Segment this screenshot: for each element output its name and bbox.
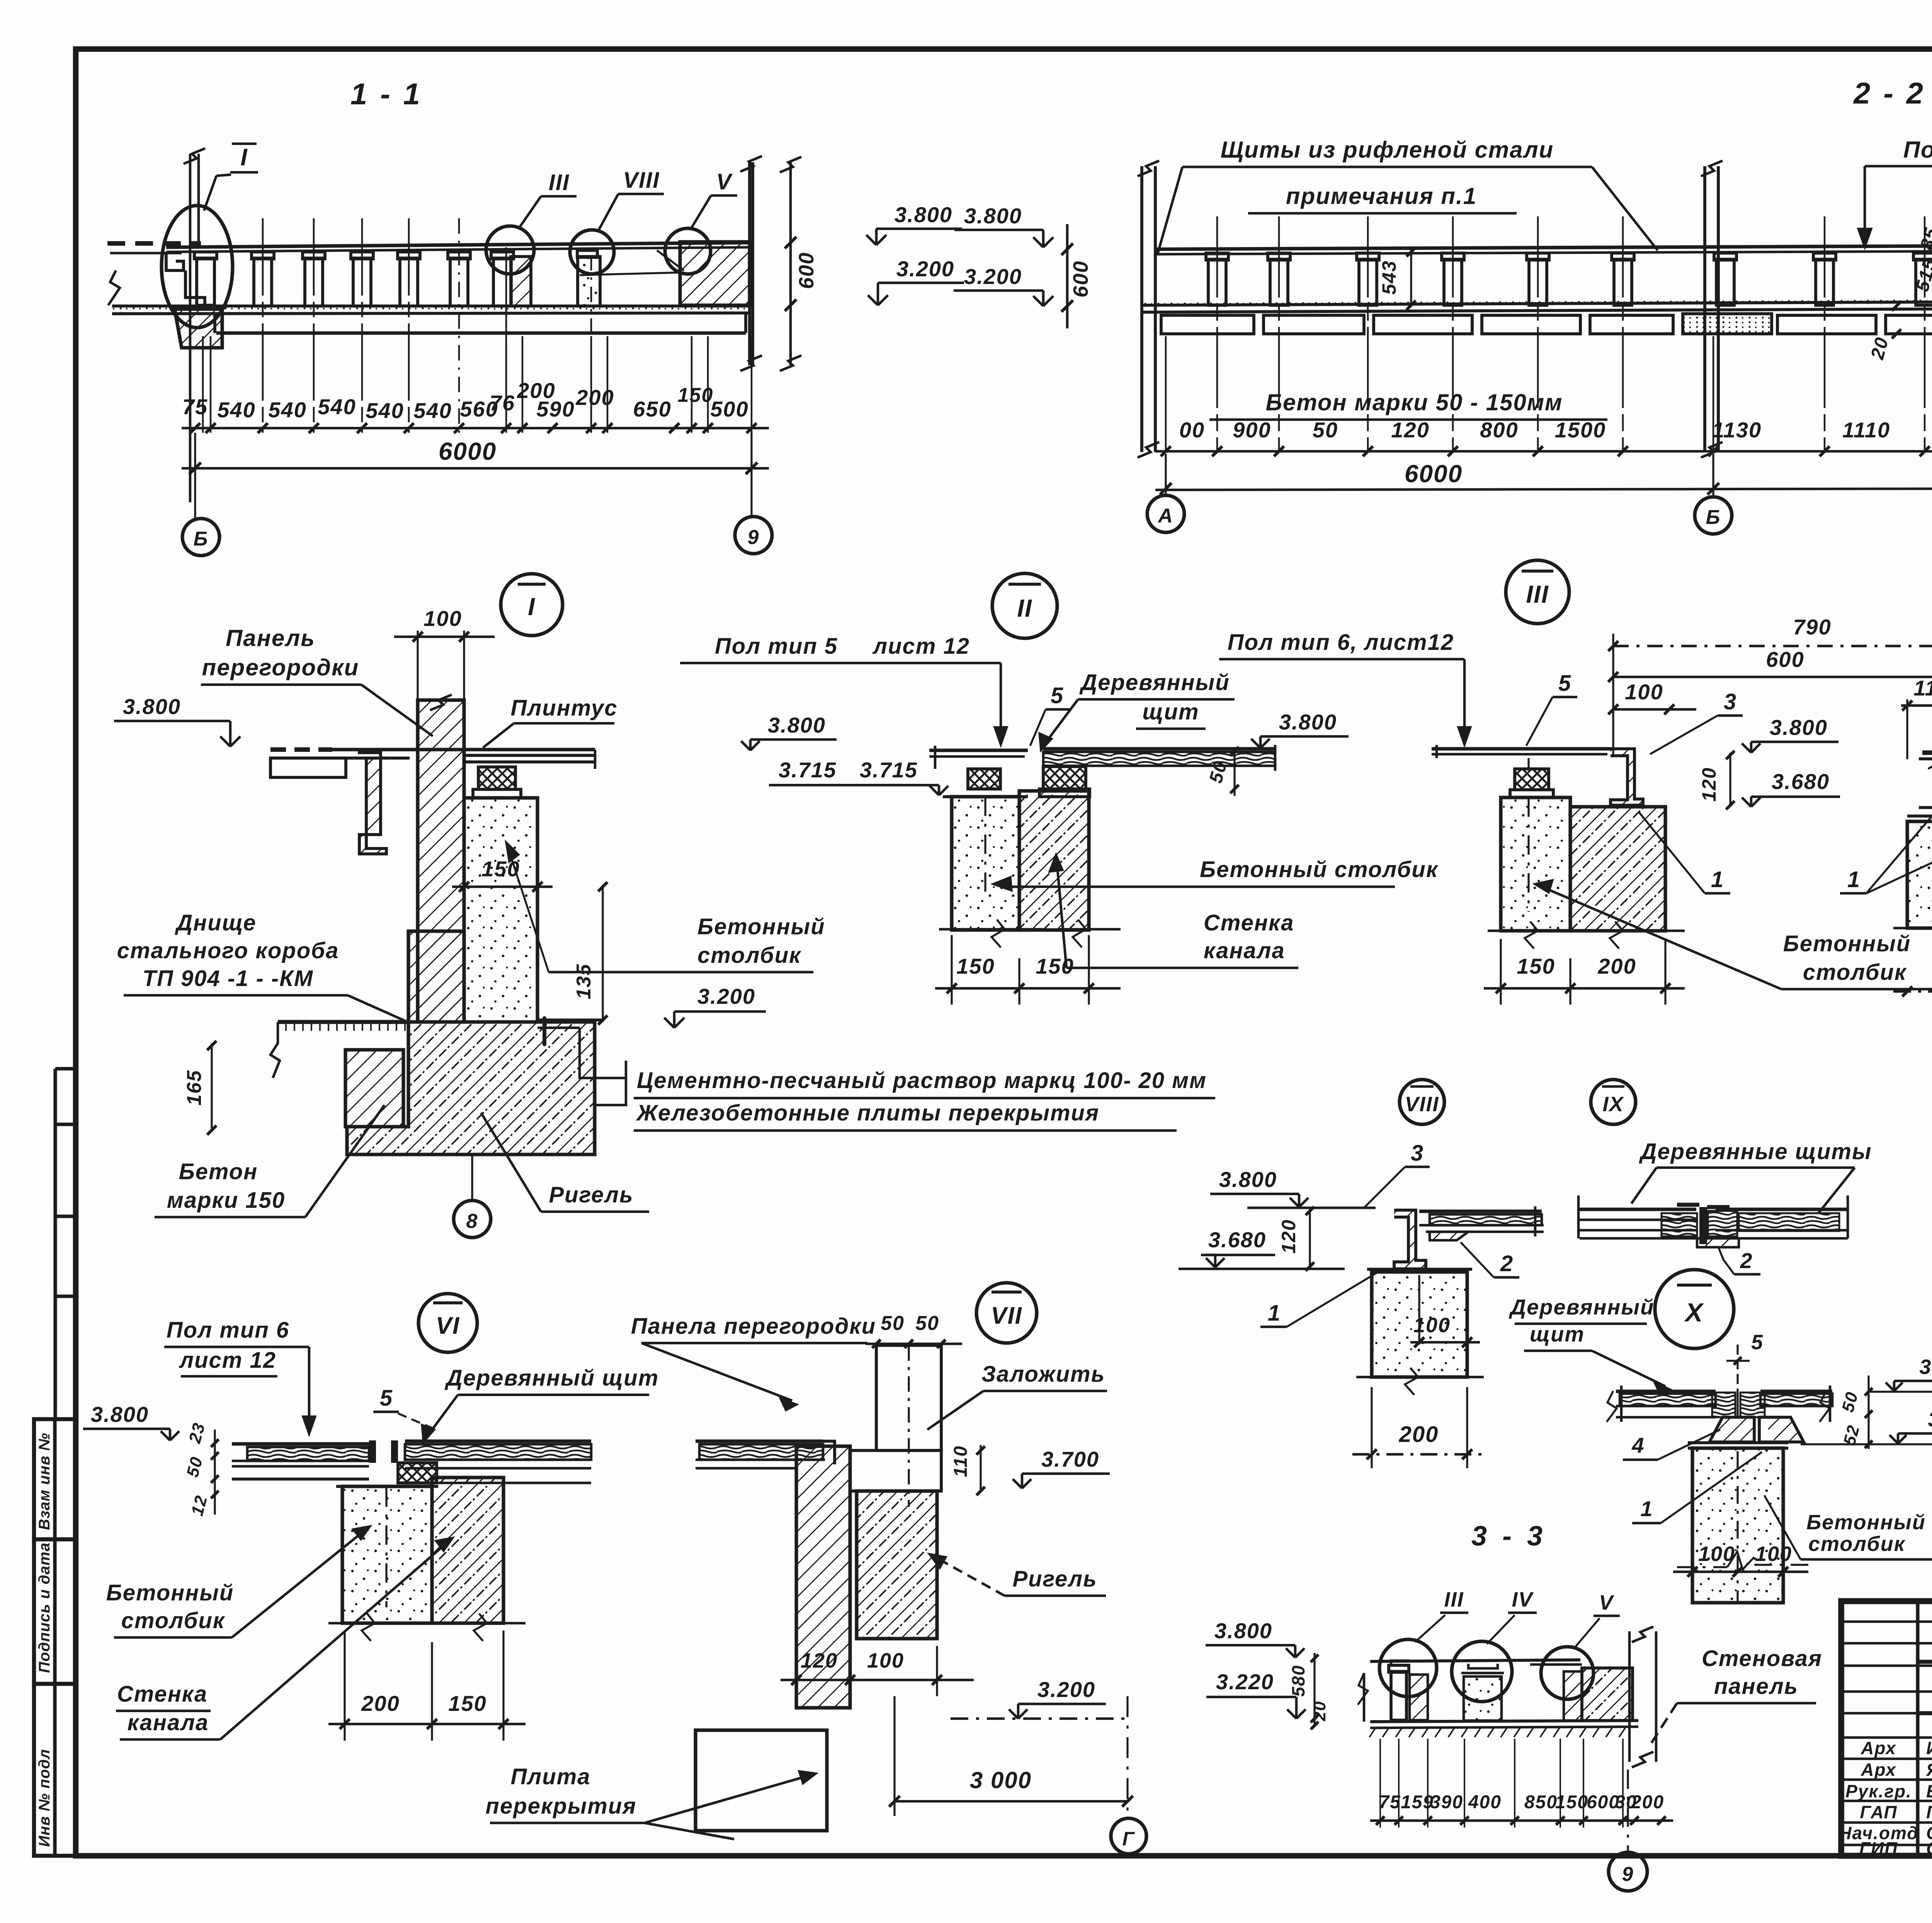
- svg-text:3.200: 3.200: [896, 257, 954, 281]
- svg-text:X: X: [1684, 1298, 1704, 1327]
- svg-text:Деревянные щиты: Деревянные щиты: [1639, 1139, 1872, 1164]
- svg-text:540: 540: [217, 398, 255, 422]
- svg-text:Стенка: Стенка: [117, 1682, 207, 1707]
- section 2-2 wall at axis B: [1703, 166, 1706, 452]
- svg-text:Пол тип 6: Пол тип 6: [1903, 137, 1932, 163]
- svg-text:100: 100: [1625, 680, 1663, 704]
- svg-text:4: 4: [1631, 1433, 1645, 1457]
- svg-text:Взам инв №: Взам инв №: [36, 1433, 53, 1530]
- svg-text:3.800: 3.800: [1279, 710, 1337, 734]
- svg-text:лист 12: лист 12: [872, 634, 970, 659]
- svg-text:5: 5: [380, 1386, 393, 1411]
- svg-text:100: 100: [867, 1649, 904, 1672]
- svg-text:400: 400: [1468, 1792, 1502, 1812]
- detail III channel wall: [1570, 807, 1665, 931]
- svg-text:200: 200: [517, 378, 555, 403]
- svg-text:III: III: [549, 170, 570, 195]
- left stamp upper boxes: [53, 1069, 57, 1419]
- 3-3 wall hatches: [1564, 1671, 1582, 1721]
- svg-text:Заложить: Заложить: [981, 1362, 1105, 1387]
- svg-text:III: III: [1526, 580, 1549, 608]
- svg-text:500: 500: [710, 397, 748, 421]
- svg-text:1: 1: [1711, 867, 1724, 892]
- detail X break: [1677, 1566, 1727, 1568]
- svg-text:ТП 904 -1 - -КМ: ТП 904 -1 - -КМ: [143, 966, 314, 991]
- svg-text:столбик: столбик: [1808, 1532, 1906, 1556]
- svg-text:ГИП: ГИП: [1859, 1838, 1898, 1858]
- svg-text:Бетон: Бетон: [179, 1159, 258, 1184]
- svg-text:540: 540: [413, 398, 452, 423]
- svg-text:50: 50: [881, 1312, 905, 1335]
- svg-text:V: V: [1599, 1591, 1614, 1614]
- detail I callout circle: [501, 574, 563, 636]
- detail I concrete column: [464, 798, 537, 1022]
- svg-text:канала: канала: [1204, 938, 1285, 963]
- detail IX wood shields: [1577, 1195, 1580, 1238]
- section 1-1 posts: [197, 258, 214, 305]
- svg-text:3: 3: [1411, 1141, 1424, 1166]
- svg-text:IV: IV: [1512, 1588, 1534, 1611]
- svg-text:стального короба: стального короба: [117, 938, 339, 963]
- detail III crosshatch pad: [1515, 769, 1549, 790]
- detail VII zalozhit column: [876, 1345, 941, 1450]
- svg-text:Плита: Плита: [510, 1764, 590, 1789]
- svg-text:3.200: 3.200: [964, 264, 1022, 289]
- detail VI floor wood strips: [232, 1442, 369, 1445]
- svg-text:200: 200: [361, 1691, 400, 1716]
- svg-text:150: 150: [956, 954, 995, 978]
- svg-text:1: 1: [1847, 867, 1861, 892]
- 3-3 callout circles: [1379, 1639, 1437, 1697]
- title block rows right part: [1918, 1660, 1932, 1664]
- svg-text:А: А: [1157, 505, 1173, 527]
- detail callout ellipse I: [162, 206, 233, 328]
- svg-text:135: 135: [573, 964, 595, 1000]
- svg-text:6000: 6000: [1405, 460, 1463, 488]
- section 1-1 slab top line: [166, 243, 750, 247]
- svg-text:120: 120: [1278, 1219, 1299, 1253]
- detail X concrete column: [1692, 1448, 1783, 1603]
- svg-text:Языджан: Языджан: [1926, 1760, 1932, 1780]
- stippled refill panel under axis B: [1683, 314, 1772, 334]
- detail VII wall panel hatch: [796, 1446, 850, 1708]
- svg-text:щит: щит: [1142, 699, 1199, 724]
- svg-text:1130: 1130: [1712, 418, 1762, 442]
- svg-text:Панель: Панель: [226, 625, 315, 651]
- svg-text:120: 120: [1698, 767, 1720, 801]
- section 1-1 dim line: [182, 427, 769, 430]
- svg-text:Арх: Арх: [1861, 1760, 1896, 1780]
- svg-text:перегородки: перегородки: [202, 655, 359, 680]
- detail VI channel wall: [432, 1478, 503, 1623]
- detail VIII break: [1356, 1376, 1484, 1379]
- mortar line right: [537, 1018, 603, 1022]
- svg-text:VI: VI: [436, 1313, 460, 1339]
- detail IX callout circle: [1591, 1080, 1636, 1124]
- svg-text:3.200: 3.200: [1037, 1677, 1095, 1702]
- svg-text:3.680: 3.680: [1208, 1228, 1266, 1252]
- svg-text:I: I: [240, 144, 248, 171]
- detail II break marks: [939, 928, 1043, 931]
- section 2-2 extension lines: [1165, 336, 1167, 450]
- svg-text:1500: 1500: [1555, 418, 1606, 442]
- 3-3 bottom band: [1370, 1721, 1638, 1722]
- svg-text:3.715: 3.715: [860, 758, 918, 782]
- svg-text:5: 5: [1751, 1331, 1764, 1354]
- svg-text:3.800: 3.800: [1770, 715, 1828, 740]
- svg-text:Бескоровайный: Бескоровайный: [1926, 1781, 1932, 1801]
- svg-text:1: 1: [1640, 1496, 1653, 1521]
- svg-text:канала: канала: [128, 1710, 209, 1735]
- svg-text:Бетонный: Бетонный: [1783, 931, 1911, 956]
- svg-text:580: 580: [1288, 1665, 1308, 1697]
- svg-text:Осташевский: Осташевский: [1926, 1838, 1932, 1858]
- svg-text:марки 150: марки 150: [167, 1188, 285, 1213]
- svg-text:100: 100: [1755, 1542, 1792, 1566]
- svg-text:110: 110: [951, 1445, 971, 1478]
- right end hatched block: [680, 242, 750, 305]
- svg-text:100: 100: [423, 606, 462, 631]
- svg-text:850: 850: [1524, 1792, 1558, 1812]
- detail VIII callout circle: [1400, 1080, 1444, 1124]
- detail I steel box under floor: [270, 758, 346, 777]
- svg-text:790: 790: [1793, 615, 1831, 639]
- svg-text:Бетон марки 50 - 150мм: Бетон марки 50 - 150мм: [1265, 389, 1563, 415]
- svg-text:3: 3: [1724, 689, 1737, 714]
- svg-text:VIII: VIII: [623, 168, 660, 193]
- svg-text:200: 200: [1631, 1792, 1664, 1812]
- svg-text:3.800: 3.800: [768, 713, 826, 737]
- svg-text:столбик: столбик: [697, 943, 801, 968]
- svg-text:150: 150: [448, 1691, 486, 1716]
- svg-text:Плинтус: Плинтус: [511, 695, 618, 721]
- grid bubble A: [1165, 454, 1167, 494]
- svg-text:I: I: [528, 593, 536, 621]
- svg-text:Деревянный щит: Деревянный щит: [444, 1365, 659, 1391]
- detail II callout circle: [992, 573, 1057, 638]
- svg-text:столбик: столбик: [1803, 960, 1907, 985]
- svg-text:5: 5: [1558, 671, 1571, 696]
- section 1-1 right wall lines: [748, 162, 751, 365]
- title block verticals: [1916, 1601, 1919, 1856]
- detail VII rigel hatch: [857, 1491, 937, 1639]
- detail X trapezoid support: [1709, 1417, 1754, 1442]
- svg-text:3.800: 3.800: [964, 204, 1022, 228]
- detail VII white step: [850, 1450, 941, 1491]
- section 1-1 extension lines: [202, 336, 204, 433]
- svg-text:Бетонный: Бетонный: [106, 1580, 234, 1605]
- 3-3 right wall/dim: [1628, 1631, 1631, 1762]
- svg-text:3 000: 3 000: [970, 1767, 1032, 1793]
- svg-text:76: 76: [490, 391, 515, 415]
- under floor slab lines: [232, 1465, 369, 1468]
- svg-text:110: 110: [1913, 676, 1932, 700]
- detail III floor sheet: [1432, 747, 1611, 750]
- svg-text:390: 390: [1430, 1792, 1463, 1812]
- svg-text:Днище: Днище: [174, 910, 256, 935]
- svg-text:Петровский: Петровский: [1926, 1802, 1932, 1822]
- svg-text:VII: VII: [991, 1302, 1022, 1329]
- 3-3 floor top line: [1370, 1660, 1580, 1661]
- detail X wood floor: [1616, 1389, 1716, 1393]
- detail I floor line: [270, 747, 332, 752]
- svg-text:3.220: 3.220: [1216, 1670, 1274, 1694]
- svg-text:панель: панель: [1714, 1674, 1798, 1699]
- svg-text:3.800: 3.800: [1919, 1355, 1932, 1379]
- svg-text:6000: 6000: [439, 437, 497, 465]
- svg-text:50: 50: [1313, 418, 1338, 442]
- svg-text:3.800: 3.800: [1214, 1619, 1272, 1643]
- svg-text:200: 200: [1399, 1422, 1439, 1447]
- svg-text:165: 165: [183, 1070, 206, 1106]
- detail VIII Z profile: [1394, 1210, 1426, 1269]
- svg-text:50: 50: [915, 1312, 939, 1335]
- svg-text:1110: 1110: [1842, 418, 1890, 442]
- svg-text:3.698: 3.698: [1928, 1408, 1932, 1431]
- grid bubble 9 (3-3): [1627, 1770, 1629, 1851]
- svg-text:150: 150: [678, 384, 714, 406]
- detail III concrete column: [1501, 797, 1570, 931]
- svg-text:Железобетонные плиты перекры: Железобетонные плиты перекрытия: [636, 1100, 1099, 1126]
- svg-text:159: 159: [1401, 1792, 1434, 1812]
- grid bubble B2: [1712, 454, 1714, 495]
- section 2-2 posts: [1208, 259, 1226, 305]
- svg-text:2: 2: [1500, 1251, 1514, 1276]
- svg-text:Арх: Арх: [1861, 1738, 1896, 1758]
- detail I partition wall hatched: [418, 700, 464, 1022]
- detail I small hatch step left: [345, 1050, 403, 1127]
- svg-text:Б: Б: [194, 528, 209, 550]
- svg-text:150: 150: [1517, 954, 1555, 978]
- joint pieces: [369, 1440, 376, 1463]
- scan edge top-left corner: [73, 49, 78, 1856]
- svg-text:щит: щит: [1530, 1322, 1585, 1346]
- section 1-1 slab bottom band: [112, 304, 750, 308]
- detail VII callout circle: [976, 1283, 1037, 1343]
- section 2-2 slab top: [1155, 243, 1932, 249]
- svg-text:V: V: [716, 169, 733, 194]
- svg-text:Ригель: Ригель: [549, 1182, 633, 1207]
- svg-text:Г: Г: [1122, 1828, 1135, 1850]
- detail IV steel frame: [1922, 750, 1932, 755]
- svg-text:3.800: 3.800: [1219, 1167, 1277, 1192]
- detail IV concrete base: [1907, 821, 1932, 928]
- title block outer: [1841, 1601, 1932, 1856]
- svg-text:IX: IX: [1602, 1093, 1624, 1116]
- detail II concrete column: [952, 797, 1019, 930]
- svg-text:800: 800: [1480, 418, 1518, 442]
- svg-text:Стеновая: Стеновая: [1702, 1646, 1822, 1671]
- svg-text:VIII: VIII: [1405, 1093, 1439, 1116]
- detail VI concrete column: [342, 1486, 432, 1623]
- detail X callout circle: [1655, 1270, 1734, 1348]
- svg-text:3.715: 3.715: [779, 758, 837, 782]
- detail I steel floor bottom: [278, 1020, 408, 1024]
- detail VII floor left: [696, 1439, 823, 1443]
- svg-text:Бетонный: Бетонный: [697, 914, 825, 939]
- svg-text:120: 120: [1391, 418, 1429, 442]
- stippled block at detail VIII: [578, 257, 600, 306]
- svg-text:Пол тип 6: Пол тип 6: [167, 1318, 289, 1343]
- section 1-1 dashed floor line left: [107, 241, 201, 246]
- svg-text:100: 100: [1698, 1542, 1735, 1566]
- detail IX joint: [1699, 1207, 1707, 1244]
- svg-text:3.200: 3.200: [697, 984, 755, 1008]
- svg-text:3.800: 3.800: [123, 694, 181, 719]
- svg-text:Бетонный: Бетонный: [1806, 1511, 1926, 1534]
- svg-text:5: 5: [1051, 683, 1064, 708]
- section 2-2 slab bottom dotted: [1142, 299, 1932, 305]
- svg-text:Рук.гр.: Рук.гр.: [1845, 1781, 1912, 1801]
- svg-text:Ищенко: Ищенко: [1926, 1738, 1932, 1758]
- svg-text:8: 8: [466, 1210, 478, 1233]
- title block left small rows: [1841, 1620, 1932, 1623]
- detail II channel wall hatched: [1019, 791, 1089, 930]
- section 2-2 dim line 1: [1155, 450, 1932, 453]
- hatched wedge VIII: [1430, 1232, 1468, 1240]
- svg-text:Пол тип 6, лист12: Пол тип 6, лист12: [1228, 630, 1454, 655]
- svg-text:столбик: столбик: [121, 1608, 225, 1633]
- svg-text:примечания п.1: примечания п.1: [1286, 183, 1477, 209]
- detail II floor sheets: [929, 748, 1028, 752]
- grid bubble 8: [471, 1155, 473, 1200]
- svg-text:3.680: 3.680: [1772, 769, 1830, 794]
- detail VII slab plate bottom: [696, 1730, 827, 1831]
- svg-text:00: 00: [1179, 418, 1205, 442]
- detail I C-channel profile: [359, 750, 386, 854]
- detail IV break: [1893, 927, 1932, 930]
- svg-text:Щиты из рифленой стали: Щиты из рифленой стали: [1221, 137, 1554, 163]
- section 2-2 dim 600 vertical: [1066, 224, 1069, 328]
- detail X joint wood blocks: [1712, 1393, 1735, 1417]
- detail I lower hatched wall block: [408, 931, 464, 1022]
- svg-text:Пол тип 5: Пол тип 5: [715, 634, 838, 659]
- svg-text:150: 150: [1036, 954, 1074, 978]
- svg-text:2: 2: [1740, 1248, 1753, 1273]
- svg-text:Деревянный: Деревянный: [1079, 670, 1230, 695]
- svg-text:3 - 3: 3 - 3: [1471, 1521, 1546, 1552]
- detail III Z profile: [1611, 749, 1643, 805]
- svg-text:1: 1: [1268, 1301, 1281, 1326]
- svg-text:600: 600: [1069, 260, 1092, 298]
- grid line G: [1126, 1696, 1128, 1816]
- svg-text:перекрытия: перекрытия: [486, 1794, 637, 1819]
- svg-text:II: II: [1017, 594, 1032, 622]
- svg-text:III: III: [1444, 1588, 1464, 1611]
- svg-text:650: 650: [633, 397, 671, 421]
- svg-text:2 - 2: 2 - 2: [1853, 76, 1925, 110]
- svg-text:200: 200: [1597, 954, 1636, 978]
- detail I plinth crosshatch: [478, 767, 515, 789]
- 3-3 posts: [1391, 1671, 1406, 1720]
- detail callout circle VIII: [570, 230, 614, 274]
- svg-text:75: 75: [1379, 1792, 1401, 1812]
- svg-text:9: 9: [748, 526, 760, 549]
- detail VIII wood floor right: [1419, 1209, 1542, 1213]
- section 1-1 left hatched footing: [175, 309, 222, 348]
- post at detail III with hatch block: [493, 258, 511, 306]
- svg-text:120: 120: [801, 1649, 838, 1672]
- svg-text:3.700: 3.700: [1041, 1447, 1099, 1471]
- section 1-1 bottom beam: [216, 331, 746, 335]
- detail VI callout circle: [418, 1294, 477, 1352]
- svg-text:3.800: 3.800: [91, 1402, 149, 1427]
- detail VIII concrete column: [1372, 1272, 1467, 1377]
- left stamp: Vzam inv block: [34, 1419, 76, 1539]
- section 2-2 panel row: [1161, 315, 1254, 334]
- detail III callout circle: [1506, 560, 1569, 624]
- detail I rigel hatched: [347, 1022, 595, 1154]
- svg-text:600: 600: [1766, 647, 1804, 672]
- svg-text:Ригель: Ригель: [1012, 1566, 1097, 1591]
- svg-text:1 - 1: 1 - 1: [350, 77, 422, 111]
- section 2-2 wall at axis A: [1140, 166, 1143, 452]
- section 1-1 channel detail: [166, 252, 184, 270]
- svg-text:Б: Б: [1706, 506, 1721, 529]
- svg-text:Деревянный: Деревянный: [1509, 1295, 1655, 1319]
- svg-text:Цементно-песчаный раствор ма: Цементно-песчаный раствор маркц 100- 20 …: [637, 1068, 1207, 1093]
- svg-text:900: 900: [1233, 418, 1271, 442]
- svg-text:Бетонный столбик: Бетонный столбик: [1200, 857, 1439, 882]
- svg-text:лист 12: лист 12: [179, 1348, 276, 1373]
- grid bubble 9: [735, 517, 772, 554]
- detail VI breaks: [328, 1622, 425, 1625]
- detail II crosshatch pads: [968, 769, 1000, 789]
- svg-text:3.800: 3.800: [895, 202, 952, 227]
- 3-3 small steel marks: [1391, 1661, 1410, 1665]
- svg-text:75: 75: [182, 394, 208, 419]
- section 1-1 grid column line: [189, 154, 192, 502]
- svg-text:Стенка: Стенка: [1204, 910, 1294, 935]
- svg-text:540: 540: [268, 398, 306, 422]
- detail III break: [1488, 930, 1685, 932]
- svg-text:540: 540: [318, 394, 356, 419]
- svg-text:Панела перегородки: Панела перегородки: [631, 1314, 876, 1339]
- detail callout circle V: [665, 228, 711, 274]
- svg-text:200: 200: [575, 385, 614, 410]
- svg-text:543: 543: [1378, 260, 1400, 294]
- svg-text:Инв № подл: Инв № подл: [36, 1749, 53, 1847]
- svg-text:9: 9: [1622, 1863, 1634, 1886]
- svg-text:ГАП: ГАП: [1860, 1802, 1897, 1822]
- svg-text:Подпись и дата: Подпись и дата: [36, 1542, 53, 1673]
- svg-text:600: 600: [795, 252, 818, 289]
- grid bubble B: [182, 519, 219, 556]
- svg-text:540: 540: [366, 398, 404, 423]
- section 1-1 level dimension 600: [789, 162, 792, 365]
- detail callout circle III: [486, 226, 534, 274]
